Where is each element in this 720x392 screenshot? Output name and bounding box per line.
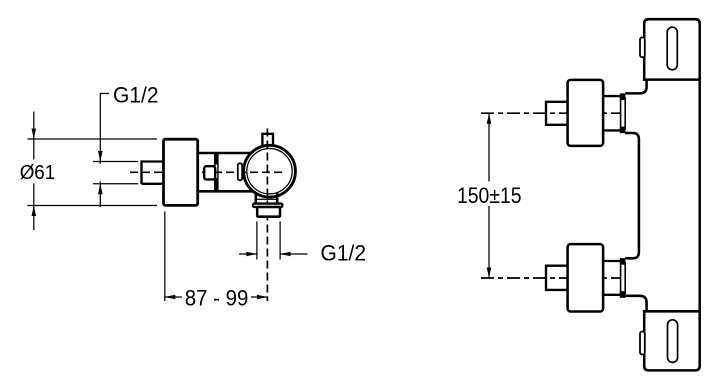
dim line O61 top tail [33,112,35,160]
dim line O61 bottom tail [33,184,35,231]
dim line 150 top segment [488,113,490,181]
svg-text:150±15: 150±15 [457,183,522,208]
extension line O61 top [28,138,158,140]
escutcheon flange [164,139,198,205]
spout neck right [276,193,279,204]
washer junction blob top [620,93,626,100]
centerline bottom connector [481,277,628,279]
bottom neck upper edge [603,260,621,262]
top washer [621,98,626,129]
body top edge [198,152,252,155]
arrow right 87-99 [257,295,268,300]
top neck lower edge [603,129,621,131]
washer junction blob bottom [620,127,626,134]
dim line 87-99 right segment [251,296,267,298]
bar left profile with necks [625,80,646,312]
arrow down G1/2 top [98,151,103,162]
bar top cap [644,19,700,79]
arrow down 150 [487,268,492,279]
pipe stub inlet [142,162,165,184]
dim line G1/2 bottom left [239,253,257,255]
dim line G1/2 bottom right [280,253,307,255]
spout nut [257,207,280,217]
leader G1/2 top [100,94,109,164]
cap bump top [640,37,645,57]
oval slot top [667,27,677,70]
arrow up O61 [32,206,37,217]
body bottom edge [198,190,253,193]
top connector stub [546,102,568,125]
svg-text:G1/2: G1/2 [113,83,159,108]
bar right edge [698,80,701,312]
top neck upper edge [603,95,621,97]
knob inner circle [247,149,292,194]
arrow up 150 [487,113,492,124]
temperature button on top [261,134,274,147]
bottom neck lower edge [603,294,621,296]
top connector block [568,80,604,146]
centerline top connector [481,112,628,114]
oval slot bottom [668,320,678,363]
joint band upper block [214,153,219,165]
spout flange [253,204,282,207]
arrow left G1/2 bottom [280,252,291,257]
bottom connector stub [546,266,568,290]
arrow right G1/2 bottom [246,252,257,257]
extension line 87-99 left [164,212,166,302]
joint band lower block [214,178,219,191]
joint band thin line left [214,165,216,179]
extension line spout left [256,222,258,260]
cap bump bottom [640,332,645,355]
bottom washer [621,263,626,294]
extension line spout right [279,222,281,260]
dim line 150 bottom segment [488,206,490,278]
bottom connector block [568,244,604,311]
centerline horizontal (left view axis) [130,171,285,173]
stop-valve knob [204,166,215,179]
arrow down O61 [32,129,37,140]
bar bottom cap [644,311,700,370]
centerline vertical (knob axis) [266,129,268,302]
knob outer circle [244,145,296,197]
joint band thin line right [217,165,219,179]
svg-text:87 - 99: 87 - 99 [185,286,249,311]
svg-text:Ø61: Ø61 [20,161,56,184]
arrow left 87-99 [165,295,176,300]
washer junction blob top [620,258,626,265]
dim line 87-99 left segment [165,296,182,298]
extension line O61 bottom [28,205,158,207]
lens detail at knob face [238,163,242,180]
extension line pipe top [93,161,138,163]
extension line pipe bottom [93,183,138,185]
arrow up G1/2 top dim [98,184,103,195]
washer junction blob bottom [620,291,626,298]
dimension tail G1/2 bottom part [99,182,101,208]
spout neck step line [256,198,277,200]
spout neck left [255,193,258,204]
svg-text:G1/2: G1/2 [321,241,367,266]
